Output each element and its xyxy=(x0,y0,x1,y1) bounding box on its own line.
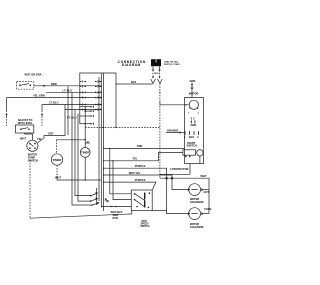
svg-text:2 3: 2 3 xyxy=(191,116,195,120)
svg-text:4 PROTECTOR: 4 PROTECTOR xyxy=(170,167,189,171)
svg-text:SUPPLY CORD: SUPPLY CORD xyxy=(164,64,180,66)
wire vertical x113 xyxy=(112,160,131,200)
wire water level to temp switch xyxy=(25,133,33,140)
wire vertical x78 xyxy=(78,114,91,202)
label protector xyxy=(170,167,189,171)
timer terminal pins column B xyxy=(95,80,101,110)
junction marks bottom xyxy=(105,199,109,203)
bus junction dots xyxy=(101,86,102,87)
water level switch label xyxy=(18,118,33,125)
svg-text:PNK: PNK xyxy=(137,144,143,148)
water temp switch S2 xyxy=(27,140,38,151)
svg-text:SWITCH: SWITCH xyxy=(28,159,38,163)
label cold water solenoid xyxy=(190,222,204,229)
motor M1 winding circle xyxy=(188,100,200,114)
motor M1 box xyxy=(185,92,204,164)
label water temp switch xyxy=(28,153,38,163)
label line cord note xyxy=(164,60,180,66)
connector V white xyxy=(158,79,163,84)
timer motor T2 circle xyxy=(80,148,90,181)
wire plug lead black xyxy=(152,66,154,78)
connector V black xyxy=(151,79,156,84)
wire YEL to protector xyxy=(103,153,190,175)
bus vertical second xyxy=(103,73,105,211)
label motor switch xyxy=(140,221,149,228)
timer terminal pins column A xyxy=(80,80,87,110)
svg-text:ORANGE: ORANGE xyxy=(167,128,179,132)
wire WHT timer to bus xyxy=(55,176,102,181)
overload protector circle xyxy=(197,150,203,156)
svg-text:WHT: WHT xyxy=(201,174,207,178)
svg-text:MOTOR: MOTOR xyxy=(189,92,199,96)
svg-text:WHT: WHT xyxy=(20,137,26,141)
svg-text:DIAGRAM: DIAGRAM xyxy=(122,63,141,67)
wire bottom border xyxy=(30,211,132,219)
wire PUR to cold valve xyxy=(103,164,189,214)
svg-text:BLK: BLK xyxy=(131,80,136,84)
svg-text:SOLENOID: SOLENOID xyxy=(190,225,204,229)
timer box top xyxy=(80,73,116,124)
hot water solenoid L1 xyxy=(188,184,209,196)
wire vertical x116 xyxy=(115,84,117,127)
pressure switch terminal right xyxy=(41,105,43,127)
label hot water solenoid xyxy=(190,197,204,204)
wire LT BLU row2 xyxy=(46,88,102,92)
svg-text:YEL: YEL xyxy=(132,157,137,161)
wire WHT vertical to water valves xyxy=(160,103,209,214)
svg-text:BRN: BRN xyxy=(51,82,57,86)
title CONNECTION DIAGRAM xyxy=(118,60,146,67)
motor switch contacts stack xyxy=(90,188,100,206)
svg-text:YEL: YEL xyxy=(37,137,42,141)
line cord plug P1 xyxy=(151,59,161,66)
wire vertical x75 xyxy=(75,110,91,196)
wire vertical x68 xyxy=(67,86,69,135)
motor start switch contact box xyxy=(183,150,196,155)
junction marks on WHT wire xyxy=(166,177,173,179)
svg-text:WTR LEVEL: WTR LEVEL xyxy=(18,121,33,125)
svg-text:LINE 120 VAC: LINE 120 VAC xyxy=(164,60,179,63)
wire dashed temp switch to border xyxy=(29,160,31,218)
wire vertical x109.8 xyxy=(109,148,131,194)
wire vertical x72 xyxy=(72,92,92,205)
wire dashed y127 xyxy=(85,127,160,128)
svg-text:PUR: PUR xyxy=(113,216,119,220)
svg-text:LT. BLU: LT. BLU xyxy=(63,88,73,92)
svg-text:GRY: GRY xyxy=(48,131,54,135)
cold water solenoid L2 xyxy=(188,207,212,220)
wire row5 xyxy=(65,110,102,120)
motor switch S3 box xyxy=(131,190,152,211)
svg-text:SWITCH: SWITCH xyxy=(140,226,149,228)
svg-text:PURPLE: PURPLE xyxy=(135,164,146,168)
motor pins row 1 4 xyxy=(184,131,199,139)
wire switch box to cold valve line xyxy=(152,210,166,212)
svg-text:SWITCH: SWITCH xyxy=(187,144,197,148)
wire GRN row4 xyxy=(42,100,102,104)
water level switch box xyxy=(15,125,33,133)
lid switch box xyxy=(17,73,42,90)
svg-text:WHT: WHT xyxy=(55,176,61,180)
bus vertical main xyxy=(100,73,102,208)
svg-text:HOT: HOT xyxy=(204,190,210,194)
timer internal vertical x85 xyxy=(84,106,86,148)
motor pins 2 3 xyxy=(191,116,197,127)
wire YEL-GRN row3 xyxy=(7,93,102,97)
svg-text:WHT-YEL: WHT-YEL xyxy=(129,171,141,175)
svg-text:GRN: GRN xyxy=(191,123,197,127)
bus vertical third xyxy=(98,77,100,201)
wire BLK from line cord xyxy=(116,73,153,84)
svg-text:WHT OR GRA: WHT OR GRA xyxy=(25,73,42,77)
svg-text:LT. BLU: LT. BLU xyxy=(49,100,59,104)
svg-text:COLD: COLD xyxy=(204,207,211,211)
wire WHT from line cord down right side xyxy=(159,84,189,106)
timer motor T1 xyxy=(51,140,85,176)
svg-text:TIMER: TIMER xyxy=(81,151,89,155)
timer pins mid column xyxy=(80,106,94,144)
svg-text:SOLENOID: SOLENOID xyxy=(190,200,204,204)
wire GRY from temp switch xyxy=(38,105,65,143)
wire PNK to motor xyxy=(103,144,185,149)
wire WHT-BLK to hot valve xyxy=(103,171,189,190)
ground GRN motor xyxy=(190,79,196,98)
pressure switch terminal left xyxy=(6,98,8,126)
svg-text:BLK: BLK xyxy=(189,135,194,139)
svg-text:TIMER: TIMER xyxy=(53,158,62,162)
wire to motor switch row3 xyxy=(101,206,131,208)
wire BRN lid switch to timer xyxy=(34,82,102,87)
svg-text:PURPLE: PURPLE xyxy=(135,178,146,182)
svg-text:GRN: GRN xyxy=(190,79,196,83)
label bottom mid wires xyxy=(111,210,123,220)
motor start switch label xyxy=(187,141,197,148)
wire plug lead white xyxy=(158,66,160,78)
svg-text:YEL-GRN: YEL-GRN xyxy=(33,93,45,97)
wire PURPLE to motor switch xyxy=(103,178,156,190)
wire ORANGE to motor xyxy=(166,128,185,133)
